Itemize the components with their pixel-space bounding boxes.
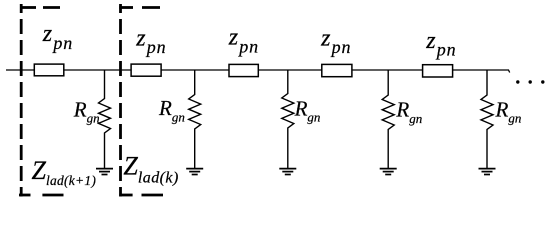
svg-text:Rgn: Rgn — [73, 97, 100, 125]
svg-text:Zlad(k): Zlad(k) — [123, 151, 178, 186]
svg-text:Rgn: Rgn — [495, 97, 522, 125]
svg-text:Zlad(k+1): Zlad(k+1) — [32, 156, 97, 188]
svg-text:Rgn: Rgn — [158, 96, 185, 124]
svg-text:zpn: zpn — [42, 21, 73, 53]
svg-text:zpn: zpn — [425, 28, 456, 60]
svg-text:zpn: zpn — [320, 26, 351, 58]
svg-text:zpn: zpn — [228, 25, 259, 57]
svg-text:zpn: zpn — [135, 26, 166, 58]
svg-text:Rgn: Rgn — [294, 96, 321, 124]
svg-text:Rgn: Rgn — [395, 98, 422, 126]
